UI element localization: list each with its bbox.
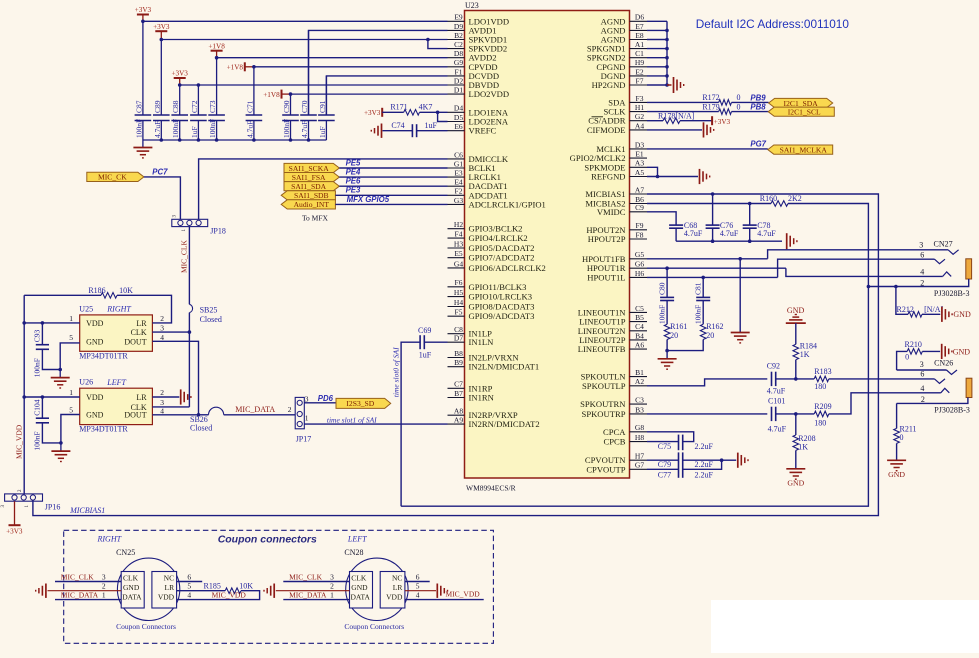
svg-text:MIC_CLK: MIC_CLK — [289, 572, 323, 581]
capacitor C75 2.2uF — [678, 435, 680, 451]
svg-text:3: 3 — [919, 240, 923, 249]
svg-text:A2: A2 — [635, 377, 644, 386]
svg-text:2.2uF: 2.2uF — [695, 460, 714, 469]
power +1V8 flag at C71 — [244, 62, 246, 71]
microphone U26 MP34DT01TR (LEFT) — [80, 388, 153, 424]
svg-text:PE6: PE6 — [346, 177, 361, 186]
svg-text:SAI1_SDA: SAI1_SDA — [291, 182, 327, 191]
svg-text:6: 6 — [920, 370, 924, 379]
svg-text:SAI1_FSA: SAI1_FSA — [292, 173, 326, 182]
port tag I2S3_SD — [336, 398, 391, 408]
svg-text:VDD: VDD — [158, 593, 175, 602]
svg-text:VDD: VDD — [86, 319, 104, 328]
coupon connectors dashed box — [64, 530, 494, 643]
wire MIC_CLK vertical from JP18 pin2 — [188, 227, 190, 305]
svg-text:C6: C6 — [454, 150, 463, 159]
svg-text:B3: B3 — [635, 405, 644, 414]
svg-text:VMIDC: VMIDC — [597, 207, 626, 217]
capacitor C72 1uF — [197, 85, 199, 115]
svg-text:CPCA: CPCA — [603, 427, 626, 437]
svg-text:1: 1 — [69, 388, 73, 397]
port tag MIC_CK — [87, 172, 144, 181]
svg-text:R178[N/A]: R178[N/A] — [658, 112, 695, 121]
svg-text:C87: C87 — [134, 100, 143, 113]
CN27 sleeve pad — [966, 259, 972, 279]
wire CN26 pin2 row — [897, 398, 968, 404]
svg-text:100nF: 100nF — [134, 119, 143, 138]
wire U25 pin5 GND — [60, 343, 79, 370]
svg-text:4.7uF: 4.7uF — [684, 229, 703, 238]
svg-text:GPIO6/ADCLRCLK2: GPIO6/ADCLRCLK2 — [469, 263, 546, 273]
ground below R211 — [887, 459, 906, 461]
CN28 pin6 wire — [405, 581, 430, 583]
connector JP16 — [5, 494, 43, 501]
wire G5 HPOUT1FB to CN27 — [647, 258, 768, 260]
svg-text:1uF: 1uF — [190, 126, 199, 138]
svg-text:A4: A4 — [635, 121, 644, 130]
svg-text:E4: E4 — [454, 178, 463, 187]
svg-text:GPIO8/DACDAT3: GPIO8/DACDAT3 — [469, 302, 535, 312]
ground below R208 — [786, 468, 805, 470]
ground at MICBIAS caps — [786, 233, 788, 249]
power +3V3 flag at R178 — [711, 116, 713, 125]
svg-text:G1: G1 — [454, 159, 463, 168]
svg-text:HPOUT2P: HPOUT2P — [588, 234, 626, 244]
svg-text:JP17: JP17 — [296, 435, 312, 444]
port tag SAI1_SCKA — [284, 163, 339, 172]
capacitor C69 1uF — [425, 341, 448, 343]
wire G9 row — [254, 66, 448, 68]
svg-text:MIC_VDD: MIC_VDD — [15, 424, 24, 459]
CN28 left pin wires — [283, 581, 349, 583]
svg-text:C3: C3 — [635, 396, 644, 405]
svg-text:C90: C90 — [282, 100, 291, 113]
svg-text:CN26: CN26 — [934, 359, 953, 368]
power +1V8 flag at C73 — [211, 50, 223, 52]
svg-text:0: 0 — [737, 102, 741, 111]
svg-text:B1: B1 — [635, 368, 644, 377]
wire B2 row — [161, 39, 447, 41]
svg-text:F3: F3 — [636, 94, 644, 103]
capacitor C81 100nF — [702, 277, 704, 297]
svg-text:4K7: 4K7 — [419, 103, 433, 112]
svg-text:1: 1 — [330, 591, 334, 600]
wire E9 row — [143, 20, 448, 22]
svg-text:MIC_CLK: MIC_CLK — [61, 572, 95, 581]
svg-text:CPVOUTP: CPVOUTP — [586, 464, 625, 474]
svg-text:2: 2 — [330, 582, 334, 591]
svg-text:C92: C92 — [767, 362, 780, 371]
wire C9 VMIDC to C68 — [647, 212, 676, 225]
svg-text:To MFX: To MFX — [302, 214, 329, 223]
svg-text:MIC_VDD: MIC_VDD — [212, 591, 247, 600]
wire CN27 pin2 row — [868, 279, 968, 287]
svg-text:C80: C80 — [657, 282, 666, 295]
svg-text:IN1RN: IN1RN — [469, 393, 495, 403]
svg-text:5: 5 — [416, 582, 420, 591]
capacitor C73 100nF — [216, 58, 218, 115]
wire U26 pin4 DOUT to MIC_DATA — [152, 414, 198, 416]
svg-text:6: 6 — [416, 572, 420, 581]
ground at C74 — [381, 124, 383, 138]
svg-text:MFX GPIO5: MFX GPIO5 — [347, 195, 390, 204]
CN26 sleeve pad — [966, 378, 972, 397]
wire DMICCLK C6 row to JP18 — [199, 159, 448, 219]
svg-text:PB8: PB8 — [750, 103, 766, 112]
wire D8 row — [217, 57, 448, 59]
svg-text:IN2LN/DMICDAT1: IN2LN/DMICDAT1 — [469, 362, 540, 372]
svg-text:C5: C5 — [635, 304, 644, 313]
svg-text:H6: H6 — [635, 269, 644, 278]
ground below R161 — [666, 351, 668, 359]
svg-text:SAI1_SDB: SAI1_SDB — [294, 191, 329, 200]
wire U26 pin1 VDD — [24, 396, 79, 398]
svg-text:REFGND: REFGND — [591, 172, 625, 182]
svg-text:+3V3: +3V3 — [714, 118, 731, 126]
svg-text:B8: B8 — [454, 349, 463, 358]
ground below G5 — [739, 259, 741, 332]
svg-text:C71: C71 — [245, 100, 254, 113]
svg-text:R179: R179 — [702, 102, 719, 111]
svg-text:E3: E3 — [454, 169, 463, 178]
port tag SAI1_SDB — [281, 191, 335, 200]
port tag I2C1_SCL — [768, 107, 834, 116]
wire U25 pin1 VDD — [24, 322, 79, 324]
svg-text:C73: C73 — [208, 100, 217, 113]
svg-text:F9: F9 — [636, 221, 644, 230]
svg-text:GND: GND — [888, 470, 905, 479]
svg-text:B9: B9 — [454, 358, 463, 367]
svg-text:R161: R161 — [670, 322, 687, 331]
svg-text:3: 3 — [920, 360, 924, 369]
svg-text:D4: D4 — [454, 104, 463, 113]
svg-text:C9: C9 — [635, 203, 644, 212]
svg-text:I2C1_SCL: I2C1_SCL — [788, 108, 821, 117]
resistor R186 10K — [24, 294, 101, 296]
svg-text:LR: LR — [136, 319, 147, 328]
power +3V3 flag below JP16 — [14, 501, 16, 525]
wire branch to C2 — [426, 38, 430, 42]
svg-text:F5: F5 — [455, 308, 463, 317]
svg-text:I2S3_SD: I2S3_SD — [346, 399, 374, 408]
wire B6 MICBIAS2 row with R160 — [647, 203, 771, 205]
ground at AGND bus — [667, 84, 672, 86]
svg-text:2: 2 — [160, 388, 164, 397]
capacitor C89 4.7uF — [160, 40, 162, 116]
ground flag at R212 — [941, 307, 943, 322]
capacitor C104 100nF — [41, 397, 43, 418]
svg-text:+3V3: +3V3 — [6, 528, 23, 536]
svg-text:4.7uF: 4.7uF — [767, 387, 786, 396]
svg-text:4: 4 — [187, 591, 191, 600]
svg-text:6: 6 — [187, 572, 191, 581]
svg-text:RIGHT: RIGHT — [97, 534, 122, 543]
solder bridge SB26 — [199, 414, 209, 416]
CN28 VDD wire MIC_VDD — [405, 599, 484, 601]
svg-text:D6: D6 — [635, 13, 644, 22]
svg-text:SAI1_MCLKA: SAI1_MCLKA — [780, 145, 828, 154]
power +1V8 flag at C90 — [281, 90, 283, 99]
svg-text:F6: F6 — [455, 278, 463, 287]
CN28 LR to ground — [405, 590, 436, 592]
wire G8 CPCA loop — [647, 432, 694, 442]
svg-text:2K2: 2K2 — [788, 194, 802, 203]
svg-text:DOUT: DOUT — [124, 338, 146, 347]
microphone U25 MP34DT01TR (RIGHT) — [80, 315, 153, 351]
svg-text:E5: E5 — [454, 249, 463, 258]
resistor R211 0 — [896, 403, 898, 428]
svg-text:SPKOUTRN: SPKOUTRN — [580, 399, 626, 409]
svg-text:E1: E1 — [635, 150, 644, 159]
svg-text:A9: A9 — [454, 416, 463, 425]
capacitor C93 100nF — [41, 323, 43, 345]
svg-text:10K: 10K — [239, 582, 253, 591]
svg-text:Closed: Closed — [190, 424, 212, 433]
svg-text:C88: C88 — [171, 100, 180, 113]
svg-text:NC: NC — [164, 574, 174, 583]
svg-text:2: 2 — [921, 395, 925, 404]
svg-text:GND: GND — [86, 338, 104, 347]
svg-text:1K: 1K — [798, 443, 808, 452]
svg-text:DATA: DATA — [351, 593, 371, 602]
svg-text:180: 180 — [814, 382, 826, 391]
CN25 left pin wires — [55, 581, 121, 583]
page corner white area — [711, 600, 979, 653]
capacitor C70 4.7uF — [308, 30, 310, 115]
svg-text:C70: C70 — [300, 100, 309, 113]
svg-text:5: 5 — [69, 405, 73, 414]
svg-text:CN25: CN25 — [116, 548, 135, 557]
resistor R179 0 — [647, 111, 719, 113]
svg-text:A3: A3 — [635, 159, 644, 168]
svg-text:LR: LR — [393, 583, 403, 592]
svg-text:H1: H1 — [635, 103, 644, 112]
svg-text:MP34DT01TR: MP34DT01TR — [79, 425, 128, 434]
svg-text:D8: D8 — [454, 49, 463, 58]
svg-text:PJ3028B-3: PJ3028B-3 — [934, 289, 970, 298]
svg-text:MIC_CK: MIC_CK — [98, 173, 127, 182]
svg-text:1: 1 — [102, 591, 106, 600]
wire G6 HPOUT1R to CN27 pin4 — [647, 267, 786, 269]
svg-text:180: 180 — [814, 419, 826, 428]
svg-text:HPOUT1L: HPOUT1L — [587, 272, 625, 282]
svg-text:time slot0 of SAI: time slot0 of SAI — [392, 347, 401, 397]
svg-text:F1: F1 — [455, 67, 463, 76]
svg-text:SB26: SB26 — [190, 415, 208, 424]
cap bank ground rail — [143, 139, 327, 141]
svg-text:WM8994ECS/R: WM8994ECS/R — [466, 484, 516, 493]
capacitor C87 100nF — [142, 21, 144, 115]
svg-text:CLK: CLK — [351, 574, 367, 583]
svg-text:D5: D5 — [454, 113, 463, 122]
svg-text:IN1LN: IN1LN — [469, 337, 495, 347]
port tag SAI1_SDA — [284, 182, 339, 191]
ground flag at CN28 LR — [436, 584, 438, 598]
svg-text:GND: GND — [123, 583, 140, 592]
svg-text:F7: F7 — [636, 76, 644, 85]
svg-text:Coupon Connectors: Coupon Connectors — [116, 622, 176, 631]
capacitor C92 4.7uF — [771, 372, 773, 386]
svg-text:C91: C91 — [318, 100, 327, 113]
svg-text:0: 0 — [737, 93, 741, 102]
svg-text:C74: C74 — [391, 121, 404, 130]
svg-text:+3V3: +3V3 — [364, 109, 381, 117]
svg-text:3: 3 — [160, 323, 164, 332]
wire A2 SPKOUTLP — [647, 379, 767, 386]
capacitor C74 1uF — [383, 130, 413, 132]
svg-text:R160: R160 — [760, 194, 777, 203]
svg-text:LINEOUTFB: LINEOUTFB — [578, 344, 626, 354]
svg-text:5: 5 — [187, 582, 191, 591]
svg-text:H5: H5 — [454, 288, 463, 297]
svg-text:MIC_CLK: MIC_CLK — [180, 239, 189, 273]
U23 CS overline — [592, 116, 604, 118]
svg-text:E9: E9 — [454, 13, 463, 22]
svg-text:+3V3: +3V3 — [153, 23, 170, 31]
svg-text:+1V8: +1V8 — [227, 64, 244, 72]
svg-text:C89: C89 — [153, 100, 162, 113]
svg-text:G9: G9 — [454, 58, 463, 67]
wire MICBIAS1 net — [33, 194, 879, 516]
wire A5 REFGND to ground — [647, 176, 698, 178]
node D4/D5 junction — [436, 111, 440, 115]
svg-text:2: 2 — [288, 405, 292, 414]
resistor R185 10K — [177, 590, 226, 592]
svg-text:GPIO4/LRCLK2: GPIO4/LRCLK2 — [469, 233, 528, 243]
svg-text:D9: D9 — [454, 22, 463, 31]
svg-text:GND: GND — [787, 306, 805, 315]
connector JP18 — [172, 219, 208, 226]
svg-text:CLK: CLK — [123, 574, 139, 583]
svg-text:H3: H3 — [454, 239, 463, 248]
svg-text:GND: GND — [351, 583, 368, 592]
wire A3 to A5 — [647, 167, 658, 176]
svg-text:F8: F8 — [636, 230, 644, 239]
svg-text:PE5: PE5 — [346, 158, 361, 167]
svg-text:100nF: 100nF — [33, 431, 42, 450]
svg-text:GND: GND — [953, 310, 971, 319]
svg-text:F4: F4 — [455, 230, 463, 239]
resistor R178 N/A — [647, 120, 663, 122]
capacitor C79 2.2uF — [647, 459, 679, 461]
svg-text:2: 2 — [160, 314, 164, 323]
capacitor C78 4.7uF — [749, 204, 751, 226]
svg-text:4: 4 — [920, 384, 924, 393]
svg-text:4.7uF: 4.7uF — [720, 229, 739, 238]
CN28 left contact block — [350, 572, 373, 609]
svg-text:C7: C7 — [454, 380, 463, 389]
svg-text:Coupon connectors: Coupon connectors — [218, 534, 317, 546]
svg-text:4: 4 — [160, 406, 164, 415]
svg-text:SB25: SB25 — [200, 305, 218, 314]
wire AGND bus — [666, 21, 668, 85]
connector CN25 circle — [117, 558, 179, 620]
power +3V3 flag at C87 — [137, 14, 149, 16]
svg-text:PG7: PG7 — [750, 140, 766, 149]
wire U26 pin5 GND — [61, 415, 80, 443]
capacitor C101 4.7uF — [771, 407, 773, 421]
CN25 pin6 wire — [177, 581, 203, 583]
svg-text:G6: G6 — [635, 260, 644, 269]
svg-text:G5: G5 — [635, 250, 644, 259]
wire MCLK1 D3 row — [647, 148, 768, 150]
svg-text:Closed: Closed — [200, 315, 222, 324]
svg-text:1uF: 1uF — [425, 121, 438, 130]
svg-text:MICBIAS1: MICBIAS1 — [69, 506, 105, 515]
resistor R183 180 — [796, 378, 814, 380]
svg-text:C4: C4 — [635, 322, 644, 331]
svg-text:B5: B5 — [635, 313, 644, 322]
svg-text:100nF: 100nF — [282, 119, 291, 138]
svg-text:MIC_DATA: MIC_DATA — [235, 405, 275, 414]
svg-text:GND: GND — [787, 478, 804, 487]
svg-text:MICBIAS1: MICBIAS1 — [585, 189, 625, 199]
svg-text:2: 2 — [102, 582, 106, 591]
svg-text:100nF: 100nF — [208, 119, 217, 138]
capacitor C68 4.7uF — [669, 224, 683, 226]
svg-text:Coupon Connectors: Coupon Connectors — [344, 622, 404, 631]
svg-text:RIGHT: RIGHT — [106, 305, 131, 314]
svg-text:R171: R171 — [390, 103, 407, 112]
svg-text:ADCLRCLK1/GPIO1: ADCLRCLK1/GPIO1 — [469, 199, 546, 209]
U23 left pin stubs and numbers — [448, 20, 465, 22]
svg-text:GPIO9/ADCDAT3: GPIO9/ADCDAT3 — [469, 311, 535, 321]
svg-text:U23: U23 — [465, 1, 479, 10]
port tag SAI1_MCLKA — [768, 145, 833, 154]
svg-text:time slot1 of SAI: time slot1 of SAI — [327, 415, 377, 424]
svg-text:+3V3: +3V3 — [171, 70, 188, 78]
svg-text:3: 3 — [102, 572, 106, 581]
svg-text:NC: NC — [392, 574, 402, 583]
svg-text:H9: H9 — [635, 58, 644, 67]
wire D1 row — [291, 93, 448, 95]
svg-text:VDD: VDD — [386, 593, 403, 602]
svg-text:4: 4 — [416, 591, 420, 600]
svg-text:C101: C101 — [768, 397, 785, 406]
wire U25 pin3 CLK — [152, 331, 189, 333]
wire H6 HPOUT1L to CN27 pin6 — [647, 276, 778, 278]
svg-text:1: 1 — [69, 314, 73, 323]
svg-text:E6: E6 — [454, 122, 463, 131]
svg-text:A1: A1 — [635, 40, 644, 49]
svg-text:MIC_DATA: MIC_DATA — [61, 591, 99, 600]
svg-text:1uF: 1uF — [318, 126, 327, 138]
ground flag at R210 — [941, 344, 943, 359]
wire B3 SPKOUTRP — [647, 413, 767, 415]
CN25 left contact block — [121, 572, 144, 609]
port tag SAI1_FSA — [284, 173, 339, 182]
svg-text:LR: LR — [136, 393, 147, 402]
wire PC7 to JP18 pin1 — [144, 177, 181, 219]
svg-text:1: 1 — [305, 413, 309, 422]
svg-text:4: 4 — [920, 267, 924, 276]
solder bridge SB25 — [189, 304, 192, 312]
wire time slot1 of SAI to A9 — [304, 423, 447, 425]
svg-text:R212: R212 — [897, 305, 914, 314]
svg-text:LEFT: LEFT — [347, 534, 367, 543]
svg-text:GND: GND — [86, 410, 104, 419]
svg-text:E7: E7 — [635, 22, 644, 31]
wire MIC_VDD rail — [23, 295, 25, 494]
svg-text:G7: G7 — [635, 461, 644, 470]
svg-text:SAI1_SCKA: SAI1_SCKA — [289, 164, 330, 173]
svg-text:6: 6 — [920, 250, 924, 259]
svg-text:C1: C1 — [635, 49, 644, 58]
svg-text:C2: C2 — [454, 40, 463, 49]
svg-text:4.7uF: 4.7uF — [300, 121, 309, 138]
svg-text:PE4: PE4 — [346, 168, 361, 177]
svg-text:3: 3 — [330, 572, 334, 581]
